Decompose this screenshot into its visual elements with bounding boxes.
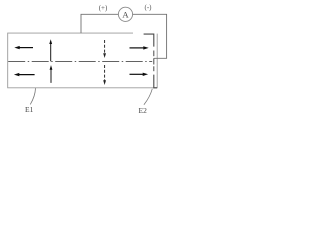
leader line to label E1 bbox=[30, 88, 35, 104]
right arrow row 1 (upper, pointing right) bbox=[130, 46, 149, 49]
svg-text:(+): (+) bbox=[99, 4, 108, 12]
up arrow below axis bbox=[50, 65, 53, 83]
svg-text:E2: E2 bbox=[139, 106, 148, 115]
svg-text:A: A bbox=[122, 10, 129, 20]
svg-text:E1: E1 bbox=[25, 105, 34, 114]
left arrow row 2 (lower, pointing left) bbox=[14, 73, 35, 76]
ammeter A bbox=[118, 7, 132, 21]
right arrow row 2 (lower, pointing right) bbox=[130, 73, 149, 76]
wire from ammeter (-) side down to electrode E2 bbox=[133, 14, 167, 58]
axis center line (dash-dot) bbox=[8, 61, 152, 63]
dashed down arrow above axis (field line) bbox=[103, 40, 106, 58]
left arrow row 1 (upper, pointing left) bbox=[14, 46, 33, 49]
wire from tube top to ammeter (+) side bbox=[81, 14, 118, 33]
electrode E2 (right collector plate, solid ends with dash-dot middle) bbox=[144, 34, 158, 88]
leader line to label E2 bbox=[144, 89, 152, 105]
dashed down arrow below axis (field line) bbox=[103, 65, 106, 85]
tube vessel outline (electrodes E1/E2 chamber) bbox=[8, 33, 158, 88]
svg-text:(-): (-) bbox=[145, 4, 153, 12]
up arrow above axis bbox=[49, 39, 52, 61]
